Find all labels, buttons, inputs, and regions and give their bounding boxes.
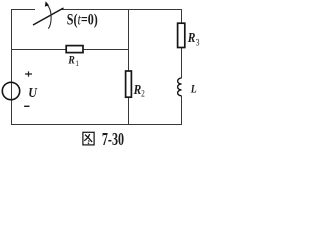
svg-text:S(t=0): S(t=0) (67, 12, 98, 29)
voltage source U circle (2, 82, 19, 99)
resistor R2 box (126, 71, 132, 97)
svg-text:2: 2 (141, 89, 145, 99)
wire: right side below inductor (181, 96, 183, 125)
wire: top side right of switch to top-right corner (61, 9, 182, 11)
svg-text:R: R (67, 54, 74, 67)
switch S(t=0) blade (33, 8, 64, 25)
resistor R3 box (178, 23, 185, 47)
svg-text:R: R (187, 30, 196, 45)
wire: right vertical side (181, 10, 183, 79)
wire: top side left segment to switch (11, 9, 35, 11)
inductor L coil (178, 78, 182, 96)
wire: left vertical side (11, 9, 13, 125)
caption: hanzi TU (figure) drawn as paths (83, 132, 94, 145)
switch arrowhead (45, 1, 49, 6)
label U (28, 84, 37, 100)
wire: middle vertical branch with R2 (128, 10, 130, 126)
caption: 7-30 (102, 130, 124, 150)
svg-text:R: R (133, 82, 142, 97)
label R2 (133, 82, 145, 99)
label - polarity (24, 105, 29, 107)
svg-text:1: 1 (76, 58, 80, 68)
resistor R1 box (66, 46, 83, 53)
svg-text:U: U (28, 84, 37, 100)
wire: middle horizontal branch with R1 (11, 49, 129, 51)
svg-text:3: 3 (196, 37, 200, 48)
label S(t=0) (67, 12, 98, 29)
wire: bottom side (11, 124, 182, 126)
label + polarity (25, 71, 32, 76)
switch actuation arc arrow (47, 5, 51, 29)
label R1 (67, 54, 79, 68)
svg-text:7-30: 7-30 (102, 130, 124, 148)
label L (190, 83, 197, 96)
svg-text:L: L (190, 83, 197, 96)
label R3 (187, 30, 200, 48)
